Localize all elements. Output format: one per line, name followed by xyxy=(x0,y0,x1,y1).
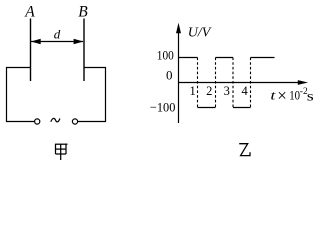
svg-text:10: 10 xyxy=(289,87,300,102)
svg-text:×: × xyxy=(277,86,287,105)
svg-text:2: 2 xyxy=(206,84,212,98)
svg-text:t: t xyxy=(270,87,276,102)
svg-text:0: 0 xyxy=(166,67,173,82)
svg-text:−100: −100 xyxy=(150,100,176,115)
svg-text:s: s xyxy=(307,90,314,105)
svg-text:4: 4 xyxy=(241,84,248,98)
svg-text:U/V: U/V xyxy=(188,25,212,40)
svg-text:100: 100 xyxy=(157,48,174,63)
svg-text:B: B xyxy=(78,4,88,21)
svg-text:3: 3 xyxy=(224,84,230,98)
svg-text:1: 1 xyxy=(189,84,195,98)
svg-text:A: A xyxy=(24,4,35,21)
svg-text:d: d xyxy=(54,27,61,42)
